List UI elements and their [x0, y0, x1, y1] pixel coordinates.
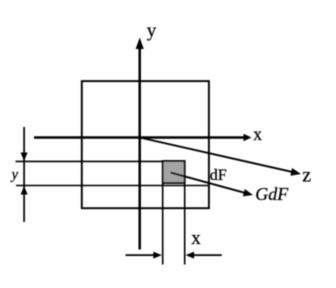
y-axis [136, 38, 144, 250]
left dimension line [23, 127, 25, 222]
bottom dimension right segment with left-pointing arrow [186, 252, 222, 259]
svg-text:y: y [10, 167, 19, 183]
x-axis [34, 134, 252, 142]
lower extension line [16, 185, 210, 187]
element dF (shaded) [163, 161, 185, 183]
svg-text:z: z [302, 164, 311, 186]
upper extension line [16, 160, 163, 162]
svg-text:y: y [147, 21, 157, 42]
z-axis [140, 138, 301, 176]
left dimension up arrowhead [21, 186, 28, 195]
GdF force arrow [171, 173, 253, 197]
element left edge extension vertical [162, 183, 164, 265]
bottom dimension left segment with right-pointing arrow [126, 252, 162, 259]
element right edge extension vertical [184, 183, 186, 265]
svg-text:dF: dF [210, 167, 227, 184]
svg-text:x: x [253, 124, 262, 144]
square cross-section outline [82, 81, 209, 208]
left dimension down arrowhead [21, 153, 28, 162]
svg-text:GdF: GdF [255, 184, 289, 204]
svg-text:x: x [191, 228, 201, 249]
